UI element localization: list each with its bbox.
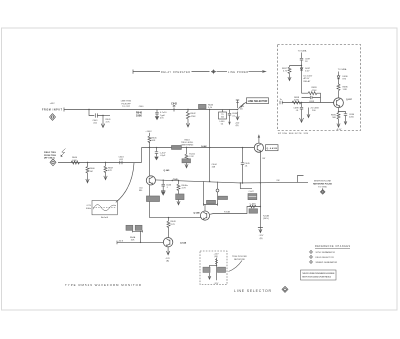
svg-text:2200: 2200	[349, 116, 355, 118]
node junction x301.6 y65	[301, 65, 302, 66]
node junction x89	[88, 109, 89, 110]
svg-text:56K: 56K	[332, 117, 336, 119]
transistor Q64B	[200, 211, 209, 220]
callout arc from box	[229, 261, 243, 272]
resistor R644	[71, 161, 80, 164]
bus wire main	[155, 180, 308, 183]
node junction x103	[102, 115, 103, 116]
resistor R699 network top	[302, 92, 321, 103]
svg-text:14.4K: 14.4K	[201, 145, 207, 148]
boxed label left	[207, 200, 216, 203]
svg-text:TO 348A: TO 348A	[338, 68, 347, 71]
switch SW640 pivot	[237, 109, 239, 111]
node relay line start tick	[132, 70, 134, 74]
node junction x188	[187, 109, 188, 110]
node junction rail2 x149	[149, 147, 150, 148]
wire relay line mid2	[217, 71, 228, 73]
title section diamond	[282, 286, 288, 292]
potentiometer bracket above Q64B	[204, 203, 218, 205]
svg-text:Q 697: Q 697	[346, 99, 353, 101]
boxed label right in box	[218, 267, 226, 272]
ground arrow at 289	[288, 74, 291, 80]
wire rail2 y147.6	[142, 147, 255, 149]
svg-text:NEW FOR S/N 101 AND UP (SEE PA: NEW FOR S/N 101 AND UP (SEE PAGE 2)	[302, 275, 331, 278]
transistor Q645B	[254, 143, 263, 152]
svg-text:1.8K: 1.8K	[343, 89, 348, 91]
node junction in box	[216, 265, 217, 266]
capacitor C646	[162, 180, 165, 191]
resistor R649	[167, 218, 170, 228]
bullet diamond 1	[309, 250, 313, 254]
ground arrow at 87	[86, 174, 89, 183]
wire branch right to C696	[339, 112, 346, 114]
svg-text:60Hz: 60Hz	[86, 208, 91, 210]
ground arrow big at 301.6	[300, 112, 304, 122]
capacitor C641	[95, 113, 103, 117]
wire rail2 left drop to input	[141, 148, 143, 163]
svg-text:(B): (B)	[260, 238, 263, 240]
svg-text:3.3K: 3.3K	[72, 160, 77, 162]
svg-text:(B): (B)	[236, 125, 239, 127]
svg-text:SWEEP GENERATOR: SWEEP GENERATOR	[316, 261, 338, 264]
svg-text:47K: 47K	[108, 170, 112, 172]
node junction rail2 x186	[186, 147, 187, 148]
wire collector feed Q645	[149, 142, 151, 176]
svg-text:4.7K: 4.7K	[171, 224, 176, 226]
resistor in box	[215, 259, 217, 264]
svg-text:LINE TRIG: LINE TRIG	[121, 101, 132, 103]
boxed label on emitter wire	[147, 196, 160, 202]
wire relay line right with arrow	[249, 71, 264, 73]
svg-text:SYNC SEPARATOR: SYNC SEPARATOR	[316, 251, 336, 254]
boxed label in loop	[249, 209, 258, 213]
boxed label on drop x186	[182, 159, 191, 163]
svg-text:5.6V: 5.6V	[305, 71, 310, 73]
wire emitter Q697	[338, 108, 340, 113]
coax mark on insertion line	[298, 176, 304, 183]
resistor R642	[186, 110, 189, 120]
node junction emitter branch	[338, 111, 339, 112]
ground arrow at 345.8	[344, 119, 347, 125]
svg-text:TO 648A: TO 648A	[298, 50, 307, 53]
wire branch left	[210, 265, 217, 267]
svg-text:10K: 10K	[152, 140, 156, 142]
waveform sine trace	[93, 205, 116, 211]
boxed label right of test point	[218, 196, 228, 199]
wire left branch	[290, 66, 302, 68]
svg-text:TO CRT: TO CRT	[122, 106, 131, 108]
node junction bus x209.6	[209, 181, 210, 182]
waveform pointer squiggle	[61, 149, 65, 156]
svg-text:PICKOFF: PICKOFF	[121, 103, 131, 105]
boxed label LINE SELECTOR switch	[247, 98, 269, 104]
ground triangle at 156.5	[154, 157, 158, 161]
wire collector Q64B	[204, 205, 206, 212]
svg-text:(M): (M)	[214, 256, 217, 258]
node junction x87	[87, 162, 88, 163]
svg-text:AT 6V: AT 6V	[304, 77, 310, 80]
node junction bus x260.4	[260, 182, 261, 183]
svg-text:TRIG PICKOFF: TRIG PICKOFF	[232, 256, 248, 258]
svg-text:470K: 470K	[312, 90, 318, 92]
node test point circle	[216, 189, 219, 192]
capacitor C643a down at 157	[155, 110, 158, 117]
node junction x209.6 main vertical	[209, 109, 210, 110]
capacitor C698	[300, 103, 303, 113]
svg-text:Q-645B: Q-645B	[266, 147, 277, 150]
svg-text:NETWORK PULSE: NETWORK PULSE	[313, 184, 332, 186]
node junction base network	[301, 102, 302, 103]
dashed enclosure relay assembly	[278, 45, 361, 131]
svg-text:Q 645: Q 645	[164, 169, 171, 172]
wire to Q64A	[168, 227, 170, 237]
potentiometer bracket x140	[133, 230, 143, 232]
resistor R698	[292, 101, 301, 104]
wire x140 vertical	[140, 231, 142, 242]
switch terminal post	[236, 100, 239, 108]
svg-text:880: 880	[139, 190, 142, 192]
node junction bus x178.8	[178, 180, 179, 181]
capacitor C697	[300, 58, 303, 60]
svg-text:LINE POWER: LINE POWER	[228, 72, 248, 74]
svg-text:4.7K: 4.7K	[182, 187, 187, 189]
boxed label Q645B	[266, 145, 279, 151]
boxed label on drop	[176, 194, 184, 200]
boxed control R643 on rail2	[172, 146, 182, 150]
node junction bus x163	[163, 180, 164, 181]
terminal input A	[50, 114, 56, 121]
svg-text:LINE SELECTOR: LINE SELECTOR	[234, 289, 272, 293]
svg-text:LINE SELECTOR: LINE SELECTOR	[248, 100, 268, 103]
wire vertical in box	[216, 258, 218, 281]
svg-text:-12V: -12V	[214, 283, 219, 285]
svg-text:100: 100	[240, 108, 243, 110]
svg-text:R 64B: R 64B	[224, 211, 231, 213]
node junction diamond on relay line	[211, 69, 216, 74]
wire emitter Q645B down	[259, 152, 261, 228]
resistor R646	[177, 181, 180, 195]
supply arrow at 186	[185, 163, 188, 168]
svg-text:3W: 3W	[262, 158, 265, 160]
bullet diamond 3	[309, 260, 313, 264]
svg-text:-8.5V: -8.5V	[336, 129, 342, 131]
capacitor C699 mid	[302, 96, 321, 99]
svg-text:640: 640	[221, 117, 224, 119]
svg-text:Q 64A: Q 64A	[180, 242, 187, 245]
wire diode up + label TO 348A	[338, 72, 340, 76]
terminal input B	[50, 159, 56, 166]
resistor R645	[148, 136, 151, 143]
note box	[301, 270, 337, 280]
wire x217 test point drop	[217, 182, 219, 190]
supply arrow at 178.8	[177, 200, 180, 205]
wire long vertical 209.6	[209, 110, 211, 182]
svg-text:BP 92A SEE NOTE 92B: BP 92A SEE NOTE 92B	[278, 132, 309, 135]
svg-text:100K: 100K	[136, 114, 142, 117]
arrow to -8.5V	[337, 120, 340, 128]
wire center vertical top	[301, 53, 303, 59]
waveform center dashed line	[93, 207, 116, 209]
svg-text:1M: 1M	[90, 171, 93, 173]
ground arrow at 229.5	[229, 118, 231, 122]
wire emitter Q64A with arrow	[166, 247, 169, 255]
svg-text:TO GRID: TO GRID	[318, 186, 327, 188]
svg-text:.01µF: .01µF	[160, 155, 166, 157]
svg-text:B=1mS: B=1mS	[101, 217, 109, 219]
svg-text:THIS CIRCUIT AND PIN NUMBERS S: THIS CIRCUIT AND PIN NUMBERS SHOWN ARE	[302, 272, 335, 275]
svg-text:FROM TRIG: FROM TRIG	[44, 155, 56, 157]
svg-text:+65V: +65V	[49, 103, 55, 105]
svg-text:REFERENCE CHANGES: REFERENCE CHANGES	[315, 245, 350, 248]
capacitor C647a branch from rail2	[155, 148, 158, 157]
svg-text:INSERTION LINE: INSERTION LINE	[314, 181, 332, 183]
supply arrow at 103	[101, 116, 105, 128]
svg-text:FROM INPUT: FROM INPUT	[42, 109, 63, 111]
svg-text:470K: 470K	[191, 116, 197, 118]
svg-text:C-647: C-647	[249, 191, 254, 193]
node junction x260.4 y206.5	[260, 206, 261, 207]
resistor R695	[337, 113, 340, 120]
svg-text:C640: C640	[139, 106, 144, 108]
svg-text:R64A: R64A	[130, 236, 136, 239]
svg-text:RM: RM	[277, 180, 280, 182]
switch arm	[238, 103, 244, 108]
waveform monitor screen box	[92, 201, 117, 215]
resistor R666	[86, 163, 89, 175]
svg-text:10K: 10K	[131, 240, 135, 242]
transistor Q645	[146, 176, 155, 185]
component box L640	[222, 110, 224, 113]
wire collector Q645B with up arrow	[258, 137, 260, 143]
ground arrow in box	[208, 273, 211, 280]
wire x203 drop from bus	[203, 181, 205, 204]
node junction rail2 x209.6	[209, 147, 210, 148]
wire collector Q697	[338, 91, 340, 98]
wire collector output y213	[210, 207, 261, 215]
resistor R696a	[337, 84, 340, 91]
wire base line y102.5	[282, 102, 334, 104]
wire emitter Q645 down	[149, 185, 151, 218]
wire drop x240.3	[240, 183, 252, 189]
dashed enclosure pilot light network	[200, 251, 227, 285]
svg-text:FIELD TRIG: FIELD TRIG	[44, 152, 56, 154]
wire base line Q64A	[117, 241, 163, 245]
svg-text:RELAY OPERATED: RELAY OPERATED	[161, 71, 190, 74]
resistor R648 on loop	[250, 205, 257, 208]
ground arrow below switch	[236, 112, 239, 120]
boxed label NE-2 lamp	[203, 267, 210, 272]
wire trig input y162.2	[58, 162, 142, 164]
resistor R697	[288, 67, 291, 74]
wire center vertical	[301, 60, 303, 93]
diode D697 zener	[300, 68, 303, 70]
capacitor C643	[120, 161, 122, 165]
node junction x105.5	[105, 162, 106, 163]
svg-text:(B): (B)	[166, 260, 169, 262]
resistor R667	[104, 163, 107, 173]
ground arrow at 105.5	[104, 172, 107, 179]
bullet diamond 2	[309, 255, 313, 259]
node junction x168 emitter run	[168, 217, 169, 218]
callout curve from box to switch	[241, 102, 247, 107]
svg-text:TYPE RM529 WAVEFORM MONITOR: TYPE RM529 WAVEFORM MONITOR	[65, 283, 141, 287]
section diamond symbol	[320, 188, 325, 194]
capacitor C696	[344, 114, 347, 119]
boxed control label above rail	[199, 104, 207, 108]
wire +100V feed	[149, 133, 151, 136]
ground arrow small at 308.5	[307, 108, 310, 118]
node junction x140 base	[140, 242, 141, 243]
svg-text:CENTERING: CENTERING	[181, 145, 194, 147]
transistor Q64A	[163, 238, 172, 247]
node junction rail2 x242	[242, 147, 243, 148]
node junction bus x240.3	[240, 182, 241, 183]
svg-text:(34%): (34%)	[263, 218, 269, 220]
ground arrow at 188	[186, 120, 189, 128]
ground at 163 bar and triangle	[161, 190, 165, 192]
svg-text:Q 64B: Q 64B	[193, 211, 200, 214]
svg-text:+100V: +100V	[145, 131, 152, 133]
capacitor C644	[228, 110, 231, 118]
svg-text:+64 B: +64 B	[118, 240, 124, 242]
wire relay line mid	[192, 71, 210, 73]
wire emitter run to Q64B	[150, 217, 201, 219]
wire relay operated line left	[133, 71, 160, 73]
wire capacitor C645 branch x242	[241, 148, 244, 183]
svg-text:FIELD SELECTOR: FIELD SELECTOR	[316, 257, 335, 259]
wire branch to C641	[89, 110, 94, 116]
svg-text:NETWORK: NETWORK	[234, 259, 246, 261]
ground bar arrow at emitter bottom	[258, 228, 263, 233]
svg-text:RELAY: RELAY	[304, 80, 311, 83]
transistor Q697	[334, 98, 344, 108]
boxed control labels pair	[126, 225, 133, 230]
svg-text:2.2K: 2.2K	[189, 156, 194, 158]
wire main trigger rail y109.5	[64, 108, 238, 112]
boxed label stack	[248, 194, 257, 200]
node test tick at 174	[173, 108, 175, 112]
resistor drop x186	[185, 148, 188, 161]
diode D696	[337, 76, 340, 85]
svg-text:470K: 470K	[294, 100, 300, 102]
svg-text:C-648: C-648	[250, 204, 257, 206]
callout arc to waveform	[116, 163, 134, 202]
